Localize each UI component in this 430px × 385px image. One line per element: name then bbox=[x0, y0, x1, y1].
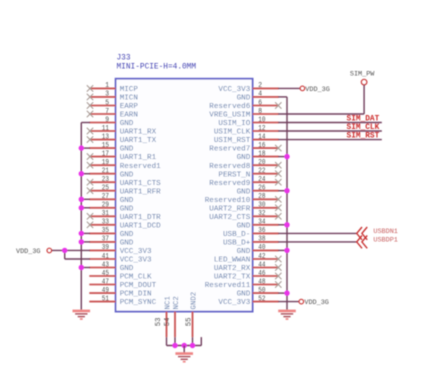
junction: left rail pin 29 bbox=[79, 205, 84, 210]
junction: pin 55 on bottom bus bbox=[190, 343, 195, 348]
svg-text:UART1_DCD: UART1_DCD bbox=[120, 222, 161, 230]
svg-text:15: 15 bbox=[102, 142, 110, 150]
svg-text:USBDP1: USBDP1 bbox=[373, 236, 397, 244]
wire: right rail to pin 18 bbox=[278, 156, 287, 158]
pin 47 PCM_DOUT (left) bbox=[89, 278, 156, 290]
svg-text:UART1_DTR: UART1_DTR bbox=[120, 214, 161, 222]
svg-text:NC1: NC1 bbox=[164, 296, 172, 310]
svg-text:18: 18 bbox=[258, 150, 266, 158]
pin 38 USB_D+ (right) bbox=[223, 236, 279, 248]
svg-text:21: 21 bbox=[102, 168, 110, 176]
pin 19 Reserved1 (left) bbox=[87, 159, 161, 171]
svg-text:8: 8 bbox=[258, 108, 262, 116]
svg-text:USB_D+: USB_D+ bbox=[223, 240, 251, 248]
svg-text:SIM_DAT: SIM_DAT bbox=[347, 116, 380, 124]
pin 22 PERST_N (right) bbox=[218, 168, 281, 180]
svg-text:43: 43 bbox=[102, 261, 110, 269]
svg-text:USIM_IO: USIM_IO bbox=[218, 120, 250, 128]
pin 11 UART1_RX (left) bbox=[87, 125, 157, 137]
pin 10 USIM_IO (right) bbox=[218, 116, 278, 128]
svg-text:25: 25 bbox=[102, 185, 110, 193]
svg-text:GND: GND bbox=[120, 171, 134, 179]
pin 53 NC1 (bottom) bbox=[155, 296, 172, 338]
off-sheet chevron USBDN1 bbox=[357, 227, 368, 240]
wire: net SIM_RST (pin 14) bbox=[278, 139, 382, 141]
svg-text:VCC_3V3: VCC_3V3 bbox=[120, 257, 152, 265]
pin 48 Reserved11 (right) bbox=[205, 278, 282, 290]
svg-text:48: 48 bbox=[258, 278, 266, 286]
svg-text:USIM_RST: USIM_RST bbox=[214, 137, 251, 145]
svg-text:30: 30 bbox=[258, 202, 266, 210]
junction: ground tap on bottom bus bbox=[182, 343, 187, 348]
pin 6 Reserved6 (right) bbox=[209, 99, 281, 111]
svg-text:PERST_N: PERST_N bbox=[218, 171, 250, 179]
svg-text:4: 4 bbox=[258, 91, 262, 99]
wire: right rail to pin 50 bbox=[278, 292, 287, 294]
svg-text:VCC_3V3: VCC_3V3 bbox=[218, 86, 250, 94]
wire: net USBDP1 (pin 38) bbox=[278, 241, 357, 243]
net label USBDP1 bbox=[373, 236, 397, 244]
wire: bottom GND bus bbox=[167, 337, 202, 345]
power flag VDD_3G (left) bbox=[16, 248, 52, 256]
pin 36 USB_D- (right) bbox=[223, 227, 279, 239]
svg-text:PCM_DOUT: PCM_DOUT bbox=[120, 282, 157, 290]
svg-text:11: 11 bbox=[102, 125, 110, 133]
svg-text:VDD_3G: VDD_3G bbox=[16, 248, 40, 256]
svg-text:Reserved6: Reserved6 bbox=[209, 103, 250, 111]
svg-text:GND: GND bbox=[237, 95, 251, 103]
ground symbol: left rail bbox=[73, 311, 91, 319]
svg-text:UART2_RFR: UART2_RFR bbox=[209, 205, 250, 213]
svg-text:GND: GND bbox=[237, 154, 251, 162]
pin 39 VCC_3V3 (left) bbox=[89, 244, 152, 256]
pin 23 UART1_CTS (left) bbox=[87, 176, 161, 188]
svg-text:17: 17 bbox=[102, 150, 109, 158]
pin 12 USIM_CLK (right) bbox=[214, 125, 279, 137]
svg-text:47: 47 bbox=[102, 278, 109, 286]
junction: right rail pin 26 bbox=[284, 188, 289, 193]
svg-text:UART1_CTS: UART1_CTS bbox=[120, 180, 161, 188]
pin 9 GND (left) bbox=[89, 116, 134, 128]
pin 5 EARP (left) bbox=[87, 99, 139, 111]
svg-text:MICP: MICP bbox=[120, 86, 139, 94]
pin 7 EARN (left) bbox=[87, 108, 138, 120]
svg-text:23: 23 bbox=[102, 176, 110, 184]
svg-text:5: 5 bbox=[105, 99, 109, 107]
svg-text:55: 55 bbox=[186, 318, 194, 327]
wire: left rail to pin 37 bbox=[81, 241, 90, 243]
svg-text:GND: GND bbox=[237, 188, 251, 196]
svg-text:Reserved1: Reserved1 bbox=[120, 163, 161, 171]
wire: left GND rail (pin 9 to ground) bbox=[81, 123, 90, 310]
net label SIM_RST bbox=[347, 133, 380, 141]
net label SIM_DAT bbox=[347, 116, 380, 124]
wire: VDD_3G to pin 39 bbox=[52, 249, 90, 251]
svg-text:44: 44 bbox=[258, 261, 266, 269]
pin 26 GND (right) bbox=[237, 185, 279, 197]
svg-text:49: 49 bbox=[102, 287, 110, 295]
wire: right GND rail (pin 4 to ground) bbox=[278, 97, 287, 310]
pin 13 UART1_TX (left) bbox=[87, 133, 157, 145]
power flag SIM_PW bbox=[350, 70, 375, 84]
svg-text:Reserved11: Reserved11 bbox=[205, 282, 251, 290]
svg-text:GND: GND bbox=[120, 205, 134, 213]
pin 17 UART1_R1 (left) bbox=[87, 150, 157, 162]
svg-text:28: 28 bbox=[258, 193, 266, 201]
svg-text:32: 32 bbox=[258, 210, 266, 218]
svg-text:UART1_RX: UART1_RX bbox=[120, 129, 157, 137]
wire: bottom pins 53/54/55 drop wires bbox=[167, 337, 193, 345]
svg-text:45: 45 bbox=[102, 270, 110, 278]
pin 54 NC2 (bottom) bbox=[164, 296, 181, 337]
svg-text:29: 29 bbox=[102, 202, 110, 210]
svg-text:USB_D-: USB_D- bbox=[223, 231, 250, 239]
svg-text:7: 7 bbox=[105, 108, 109, 116]
svg-text:27: 27 bbox=[102, 193, 109, 201]
svg-text:UART2_RX: UART2_RX bbox=[214, 265, 251, 273]
svg-text:MICN: MICN bbox=[120, 95, 138, 103]
pin 55 GND2 (bottom) bbox=[186, 292, 199, 337]
wire: net SIM_CLK (pin 12) bbox=[278, 130, 382, 132]
svg-text:SIM_RST: SIM_RST bbox=[347, 133, 380, 141]
junction: left rail pin 15 bbox=[79, 145, 84, 150]
wire: left rail to pin 29 bbox=[81, 207, 90, 209]
pin 46 UART2_TX (right) bbox=[214, 270, 282, 282]
svg-text:GND: GND bbox=[120, 265, 134, 273]
svg-text:14: 14 bbox=[258, 133, 266, 141]
wire: left rail to pin 21 bbox=[81, 173, 90, 175]
svg-text:VCC_3V3: VCC_3V3 bbox=[120, 248, 152, 256]
pin 35 GND (left) bbox=[89, 227, 134, 239]
svg-text:UART2_CTS: UART2_CTS bbox=[209, 214, 250, 222]
wire: left rail to pin 35 bbox=[81, 232, 90, 234]
svg-text:22: 22 bbox=[258, 168, 266, 176]
pin 8 VREG_USIM (right) bbox=[209, 108, 278, 120]
pin 20 Reserved8 (right) bbox=[209, 159, 281, 171]
svg-text:VDD_3G: VDD_3G bbox=[305, 86, 329, 94]
wire: left rail to pin 15 bbox=[81, 147, 90, 149]
svg-text:16: 16 bbox=[258, 142, 266, 150]
svg-text:PCM_CLK: PCM_CLK bbox=[120, 274, 152, 282]
pin 25 UART1_RFR (left) bbox=[87, 185, 161, 197]
svg-text:GND: GND bbox=[120, 231, 134, 239]
connector J33 body bbox=[116, 79, 253, 312]
junction: right rail pin 40 bbox=[284, 248, 289, 253]
junction: right rail pin 18 bbox=[284, 154, 289, 159]
wire: net SIM_DAT (pin 10) bbox=[278, 122, 382, 124]
wire: right rail to pin 26 bbox=[278, 190, 287, 192]
junction: VDD_3G branch bbox=[62, 248, 67, 253]
pin 32 UART2_CTS (right) bbox=[209, 210, 281, 222]
pin 51 PCM_SYNC (left) bbox=[89, 295, 156, 307]
svg-text:24: 24 bbox=[258, 176, 266, 184]
svg-text:UART2_TX: UART2_TX bbox=[214, 274, 251, 282]
pin 43 GND (left) bbox=[89, 261, 134, 273]
pin 15 GND (left) bbox=[89, 142, 134, 154]
pin 40 GND (right) bbox=[237, 244, 279, 256]
svg-text:Reserved9: Reserved9 bbox=[209, 180, 250, 188]
svg-text:31: 31 bbox=[102, 210, 110, 218]
svg-text:39: 39 bbox=[102, 244, 110, 252]
svg-text:36: 36 bbox=[258, 227, 266, 235]
junction: left rail pin 27 bbox=[79, 197, 84, 202]
svg-text:GND: GND bbox=[120, 197, 134, 205]
svg-text:LED_WWAN: LED_WWAN bbox=[214, 257, 250, 265]
wire: pin 8 VREG_USIM to SIM_PW bbox=[278, 85, 364, 114]
svg-text:Reserved10: Reserved10 bbox=[205, 197, 251, 205]
svg-text:EARN: EARN bbox=[120, 112, 138, 120]
pin 34 GND (right) bbox=[237, 219, 279, 231]
pin 44 UART2_RX (right) bbox=[214, 261, 282, 273]
svg-text:J33: J33 bbox=[117, 55, 131, 63]
junction: left rail pin 43 bbox=[79, 265, 84, 270]
svg-text:UART1_R1: UART1_R1 bbox=[120, 154, 157, 162]
pin 29 GND (left) bbox=[89, 202, 134, 214]
svg-text:35: 35 bbox=[102, 227, 110, 235]
pin 41 VCC_3V3 (left) bbox=[89, 253, 152, 265]
pin 49 PCM_DIN (left) bbox=[89, 287, 151, 299]
svg-text:41: 41 bbox=[102, 253, 110, 261]
ground symbol: bottom bbox=[175, 354, 193, 362]
svg-text:GND: GND bbox=[237, 222, 251, 230]
svg-text:51: 51 bbox=[102, 295, 110, 303]
pin 18 GND (right) bbox=[237, 150, 279, 162]
svg-text:34: 34 bbox=[258, 219, 266, 227]
svg-text:SIM_CLK: SIM_CLK bbox=[347, 124, 380, 132]
wire: left rail to pin 27 bbox=[81, 198, 90, 200]
svg-text:13: 13 bbox=[102, 133, 110, 141]
wire: ground lead bottom bbox=[183, 346, 185, 353]
junction: right rail pin 50 bbox=[284, 290, 289, 295]
ground symbol: right rail bbox=[278, 311, 296, 319]
wire: left rail to pin 43 bbox=[81, 267, 90, 269]
svg-text:38: 38 bbox=[258, 236, 266, 244]
svg-text:26: 26 bbox=[258, 185, 266, 193]
pin 21 GND (left) bbox=[89, 168, 134, 180]
svg-text:GND2: GND2 bbox=[190, 292, 198, 310]
wire: right rail to pin 34 bbox=[278, 224, 287, 226]
svg-text:VCC_3V3: VCC_3V3 bbox=[218, 299, 250, 307]
svg-text:6: 6 bbox=[258, 99, 262, 107]
svg-text:Reserved8: Reserved8 bbox=[209, 163, 250, 171]
svg-text:54: 54 bbox=[164, 317, 172, 326]
junction: left rail pin 35 bbox=[79, 231, 84, 236]
svg-text:53: 53 bbox=[155, 318, 163, 327]
svg-text:GND: GND bbox=[120, 146, 134, 154]
off-sheet chevron USBDP1 bbox=[357, 236, 368, 249]
pin 50 GND (right) bbox=[237, 287, 279, 299]
svg-text:GND: GND bbox=[120, 240, 134, 248]
pin 1 MICP (left) bbox=[87, 82, 139, 94]
svg-text:9: 9 bbox=[105, 116, 109, 124]
svg-text:MINI-PCIE-H=4.0MM: MINI-PCIE-H=4.0MM bbox=[117, 64, 197, 72]
svg-text:PCM_DIN: PCM_DIN bbox=[120, 291, 152, 299]
pin 14 USIM_RST (right) bbox=[214, 133, 279, 145]
power flag VDD_3G (bottom right) bbox=[299, 299, 329, 307]
pin 27 GND (left) bbox=[89, 193, 134, 205]
junction: pin 54 on bottom bus bbox=[172, 343, 177, 348]
junction: right rail pin 34 bbox=[284, 222, 289, 227]
pin 3 MICN (left) bbox=[87, 91, 138, 103]
power flag VDD_3G (top right) bbox=[300, 86, 330, 94]
wire: right rail to pin 40 bbox=[278, 249, 287, 251]
pin 45 PCM_CLK (left) bbox=[89, 270, 152, 282]
svg-text:GND: GND bbox=[120, 120, 134, 128]
wire: VDD_3G branch to pin 41 bbox=[65, 250, 90, 259]
pin 37 GND (left) bbox=[89, 236, 134, 248]
wire: net USBDN1 (pin 36) bbox=[278, 232, 357, 234]
svg-text:USBDN1: USBDN1 bbox=[373, 228, 397, 236]
svg-text:VDD_3G: VDD_3G bbox=[304, 299, 328, 307]
svg-text:SIM_PW: SIM_PW bbox=[350, 70, 375, 78]
wire: pin 2 to VDD_3G bbox=[278, 87, 300, 89]
pin 52 VCC_3V3 (right) bbox=[218, 295, 278, 307]
pin 30 UART2_RFR (right) bbox=[209, 202, 281, 214]
svg-text:52: 52 bbox=[258, 295, 266, 303]
wire: pin 52 to VDD_3G bbox=[278, 301, 299, 303]
pin 24 Reserved9 (right) bbox=[209, 176, 281, 188]
svg-text:Reserved7: Reserved7 bbox=[209, 146, 250, 154]
svg-text:37: 37 bbox=[102, 236, 109, 244]
svg-text:VREG_USIM: VREG_USIM bbox=[209, 112, 250, 120]
svg-text:40: 40 bbox=[258, 244, 266, 252]
svg-text:10: 10 bbox=[258, 116, 266, 124]
svg-text:GND: GND bbox=[237, 291, 251, 299]
svg-text:GND: GND bbox=[237, 248, 251, 256]
svg-text:46: 46 bbox=[258, 270, 266, 278]
svg-text:12: 12 bbox=[258, 125, 266, 133]
pin 33 UART1_DCD (left) bbox=[87, 219, 161, 231]
svg-text:19: 19 bbox=[102, 159, 110, 167]
pin 28 Reserved10 (right) bbox=[205, 193, 282, 205]
net label SIM_CLK bbox=[347, 124, 380, 132]
svg-text:EARP: EARP bbox=[120, 103, 139, 111]
pin 4 GND (right) bbox=[237, 91, 279, 103]
pin 42 LED_WWAN (right) bbox=[214, 253, 282, 265]
pin 31 UART1_DTR (left) bbox=[87, 210, 161, 222]
svg-text:20: 20 bbox=[258, 159, 266, 167]
svg-text:33: 33 bbox=[102, 219, 110, 227]
svg-text:1: 1 bbox=[105, 82, 109, 90]
svg-text:USIM_CLK: USIM_CLK bbox=[214, 129, 251, 137]
junction: left rail pin 37 bbox=[79, 239, 84, 244]
pin 2 VCC_3V3 (right) bbox=[218, 82, 278, 94]
net label USBDN1 bbox=[373, 228, 397, 236]
pin 16 Reserved7 (right) bbox=[209, 142, 281, 154]
svg-text:UART1_RFR: UART1_RFR bbox=[120, 188, 161, 196]
svg-text:50: 50 bbox=[258, 287, 266, 295]
svg-text:NC2: NC2 bbox=[173, 296, 181, 309]
svg-text:42: 42 bbox=[258, 253, 266, 261]
svg-text:3: 3 bbox=[105, 91, 109, 99]
svg-text:UART1_TX: UART1_TX bbox=[120, 137, 157, 145]
svg-text:2: 2 bbox=[258, 82, 262, 90]
connector J33 refdes and part name bbox=[117, 55, 197, 72]
junction: left rail pin 21 bbox=[79, 171, 84, 176]
svg-text:PCM_SYNC: PCM_SYNC bbox=[120, 299, 157, 307]
